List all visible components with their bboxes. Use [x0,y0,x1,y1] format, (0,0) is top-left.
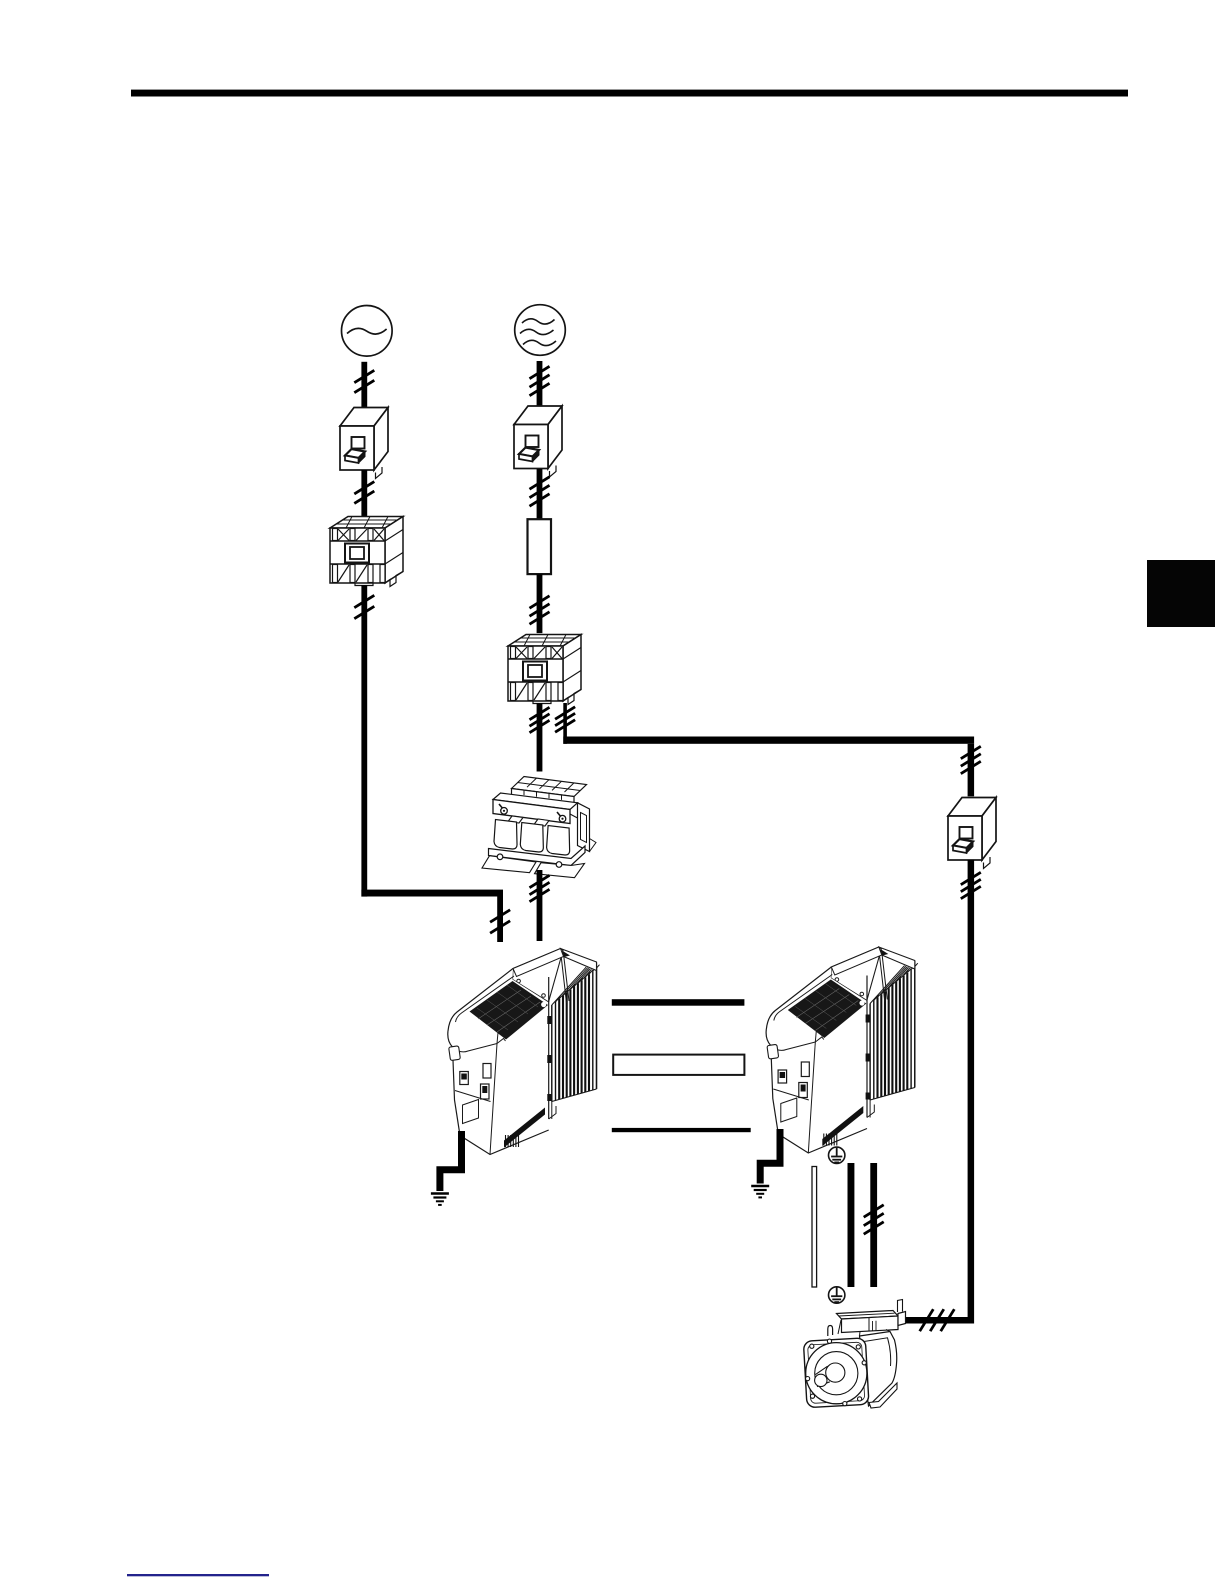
AC power source PS2 (three-phase) [515,305,566,356]
protective earth symbol at motor [829,1287,845,1303]
wire PS1 to MCCB QF1 [354,362,374,426]
wire QF2 to noise filter FIL [530,469,550,519]
top rule [131,90,1128,97]
servo amplifier A1 (SERVOPACK) [448,949,600,1155]
wire L1 down into servo amplifier A1 [530,870,550,941]
wire PS2 to MCCB QF2 [530,361,550,424]
wire KM2 to AC reactor L1 [530,703,550,772]
chapter tab (page edge) [1147,560,1215,627]
cable bar 1 between A1 and A2 [612,999,745,1006]
wire horizontal run to A1 [361,890,503,897]
ground symbol A2 [751,1186,769,1197]
wire QF1 to contactor KM1 [354,470,374,517]
encoder cable (thin) [812,1167,817,1288]
wire KM1 down to servo amplifier A1 [354,585,374,897]
AC power source PS1 (single-phase) [342,306,393,357]
circuit breaker QF2 (MCCB) [514,406,562,477]
protective earth symbol at A2 [829,1147,845,1163]
motor power cable 2 [864,1163,884,1287]
circuit breaker QF1 (MCCB) [340,408,388,479]
motor power cable 1 [848,1163,855,1287]
magnetic contactor KM2 [508,635,581,705]
circuit breaker QF3 (MCCB for motor branch) [948,798,996,869]
servo motor M1 [803,1300,905,1409]
ground wire of A1 [440,1131,462,1191]
wire branch KM2 to breaker QF3 (node B) [555,703,575,744]
ground wire of A2 [760,1129,780,1184]
wire riser into A1 [490,897,510,943]
label box [613,1055,744,1075]
wire into motor terminal box [901,1309,974,1331]
servo amplifier A2 (SERVOPACK) [766,947,918,1153]
magnetic contactor KM1 [330,517,403,587]
wire QF3 down to servo motor M1 [961,860,981,1324]
noise filter FIL [528,519,552,574]
cable bar 2 between A1 and A2 [612,1128,751,1132]
footer rule [127,1574,269,1576]
AC reactor L1 [482,777,596,878]
wire FIL to contactor KM2 [530,574,550,633]
ground symbol A1 [431,1194,449,1205]
